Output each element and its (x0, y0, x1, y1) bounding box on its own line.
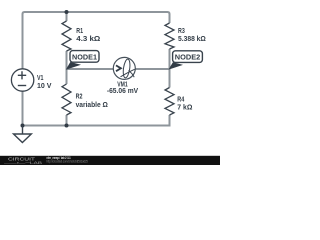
svg-text:7 kΩ: 7 kΩ (177, 102, 192, 111)
R4 labels (177, 95, 192, 112)
svg-text:variable Ω: variable Ω (76, 100, 108, 109)
footer title text (46, 156, 70, 160)
svg-text:-65.06 mV: -65.06 mV (107, 86, 138, 95)
ground (14, 126, 32, 143)
wire bottom rail (23, 115, 170, 126)
junction dot bottom-left (ground) (21, 124, 25, 128)
wire middle horizontal right (voltmeter to node2) (135, 68, 170, 70)
voltage source V1 (11, 69, 33, 91)
svg-text:NODE1: NODE1 (72, 54, 97, 61)
wire top rail (23, 12, 170, 69)
footer url text (46, 160, 87, 164)
node NODE2 label box (173, 51, 203, 63)
svg-text:http://circuitlab.com/c/nshcb8: http://circuitlab.com/c/nshcb8532a625 (46, 160, 87, 164)
svg-text:5.388 kΩ: 5.388 kΩ (178, 34, 206, 43)
VM1 labels (107, 80, 138, 96)
svg-text:——▪—─LAB: ——▪—─LAB (4, 161, 43, 165)
resistor R1 (62, 21, 71, 51)
resistor R3 (165, 23, 174, 49)
resistor R4 (165, 88, 174, 116)
svg-text:4.3 kΩ: 4.3 kΩ (76, 34, 100, 43)
R1 labels (76, 26, 100, 43)
V1 labels (37, 73, 52, 90)
footer logo CIRCUIT LAB (4, 157, 43, 166)
wire left rail lower (V1 bottom to bottom rail) (22, 91, 24, 126)
R2 labels (76, 91, 108, 108)
footer bar (0, 156, 220, 165)
junction dot bottom-middle (R2 to bottom rail) (65, 124, 69, 128)
node NODE2 flag pointer (169, 62, 184, 69)
junction dot top (R1 to top rail) (65, 10, 69, 14)
voltmeter VM1 (113, 57, 135, 79)
wire middle horizontal left (node1 to voltmeter) (67, 68, 114, 70)
resistor R2 (variable) (62, 84, 71, 115)
node NODE1 flag pointer (66, 62, 81, 70)
wire right rail middle (R3 bottom to R4 top) (169, 49, 171, 88)
node NODE1 label box (70, 51, 99, 63)
svg-text:10 V: 10 V (37, 81, 52, 90)
R3 labels (178, 26, 206, 43)
wire middle-left vertical (R1 bottom to R2 top) (66, 12, 68, 126)
svg-text:NODE2: NODE2 (175, 55, 201, 62)
